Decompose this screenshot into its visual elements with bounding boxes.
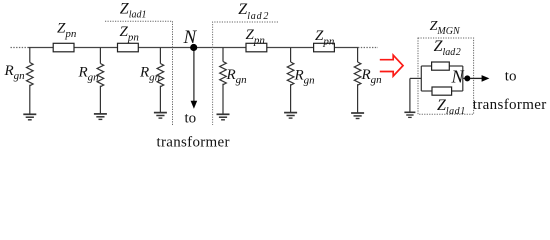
resistor branch 4 [217,48,248,120]
wire [357,48,359,63]
dashed bracket Zlad1 [105,21,173,125]
arrow down to transformer [191,51,198,109]
impedance Zlad2 box (top branch) [432,62,450,70]
wire [29,48,31,63]
dashed box ZMGN [418,38,474,114]
ground [23,114,36,120]
wire: ground stub [410,77,421,79]
ground [94,114,107,120]
resistor branch 2 [78,48,107,120]
wire [99,48,101,64]
wire: bus left of box1 [29,47,54,49]
svg-text:transformer: transformer [473,97,547,113]
impedance Zpn box 2 [118,43,139,52]
resistor branch 5 [284,48,315,119]
resistor Rgn 1 [27,63,34,86]
svg-text:to: to [505,69,517,85]
resistor Rgn 5 [287,62,294,85]
wire [159,48,161,64]
ground [217,114,230,120]
arrow right to transformer [470,75,489,82]
resistor Rgn 4 [220,62,227,85]
svg-text:Zpn: Zpn [120,24,140,44]
svg-text:Zlad2: Zlad2 [434,38,461,58]
svg-text:Rgn: Rgn [226,67,248,86]
svg-text:Zlad1: Zlad1 [437,97,465,117]
wire [222,48,224,62]
svg-text:ZMGN: ZMGN [430,19,461,37]
parallel combo wires [410,66,467,112]
svg-text:to: to [185,111,197,127]
wire: box2 to box3 [138,47,246,49]
wire: box4 to right end [334,47,358,49]
svg-text:Rgn: Rgn [4,63,26,82]
wire: left vertical [420,66,422,91]
svg-text:Rgn: Rgn [361,67,383,86]
resistor Rgn 3 [157,64,164,87]
wire: box1 to box2 [74,47,118,49]
dashed bracket Zlad2 [213,22,278,125]
svg-text:Rgn: Rgn [294,68,316,87]
svg-text:Rgn: Rgn [139,65,161,84]
svg-text:N: N [451,66,465,86]
resistor Rgn 2 [97,64,104,87]
svg-text:Rgn: Rgn [78,65,100,84]
svg-text:Zlad2: Zlad2 [238,1,268,22]
svg-text:transformer: transformer [157,135,230,151]
svg-text:Zpn: Zpn [57,21,77,41]
impedance Zpn box 3 [246,43,267,52]
wire: top branch left [421,65,431,67]
wire: right vertical [462,66,464,91]
wire: bottom branch left [421,90,432,92]
main horizontal bus wire [11,47,379,49]
ground [284,113,297,119]
wire: dotted lead-in left [11,47,29,49]
node N [190,44,197,51]
wire: dotted lead-out right [358,47,378,49]
wire: box3 to box4 [267,47,314,49]
wire: node stub [463,77,468,79]
ground (right circuit) [404,112,415,117]
ground [154,113,167,119]
wire: top branch right [449,65,463,67]
wire: bottom branch right [452,90,463,92]
red equivalence arrow [380,55,403,76]
wire [290,48,292,63]
ground [351,113,364,119]
resistor Rgn 6 [354,62,361,85]
resistor branch 6 [351,48,382,119]
node N (right) [464,75,470,81]
impedance Zlad1 box (bottom branch) [432,87,452,95]
resistor branch 3 [139,48,167,119]
impedance Zpn box 1 [53,43,74,52]
impedance Zpn box 4 [314,43,335,52]
svg-text:N: N [183,27,198,48]
svg-text:Zlad1: Zlad1 [120,1,147,21]
resistor branch 1 [4,48,37,120]
